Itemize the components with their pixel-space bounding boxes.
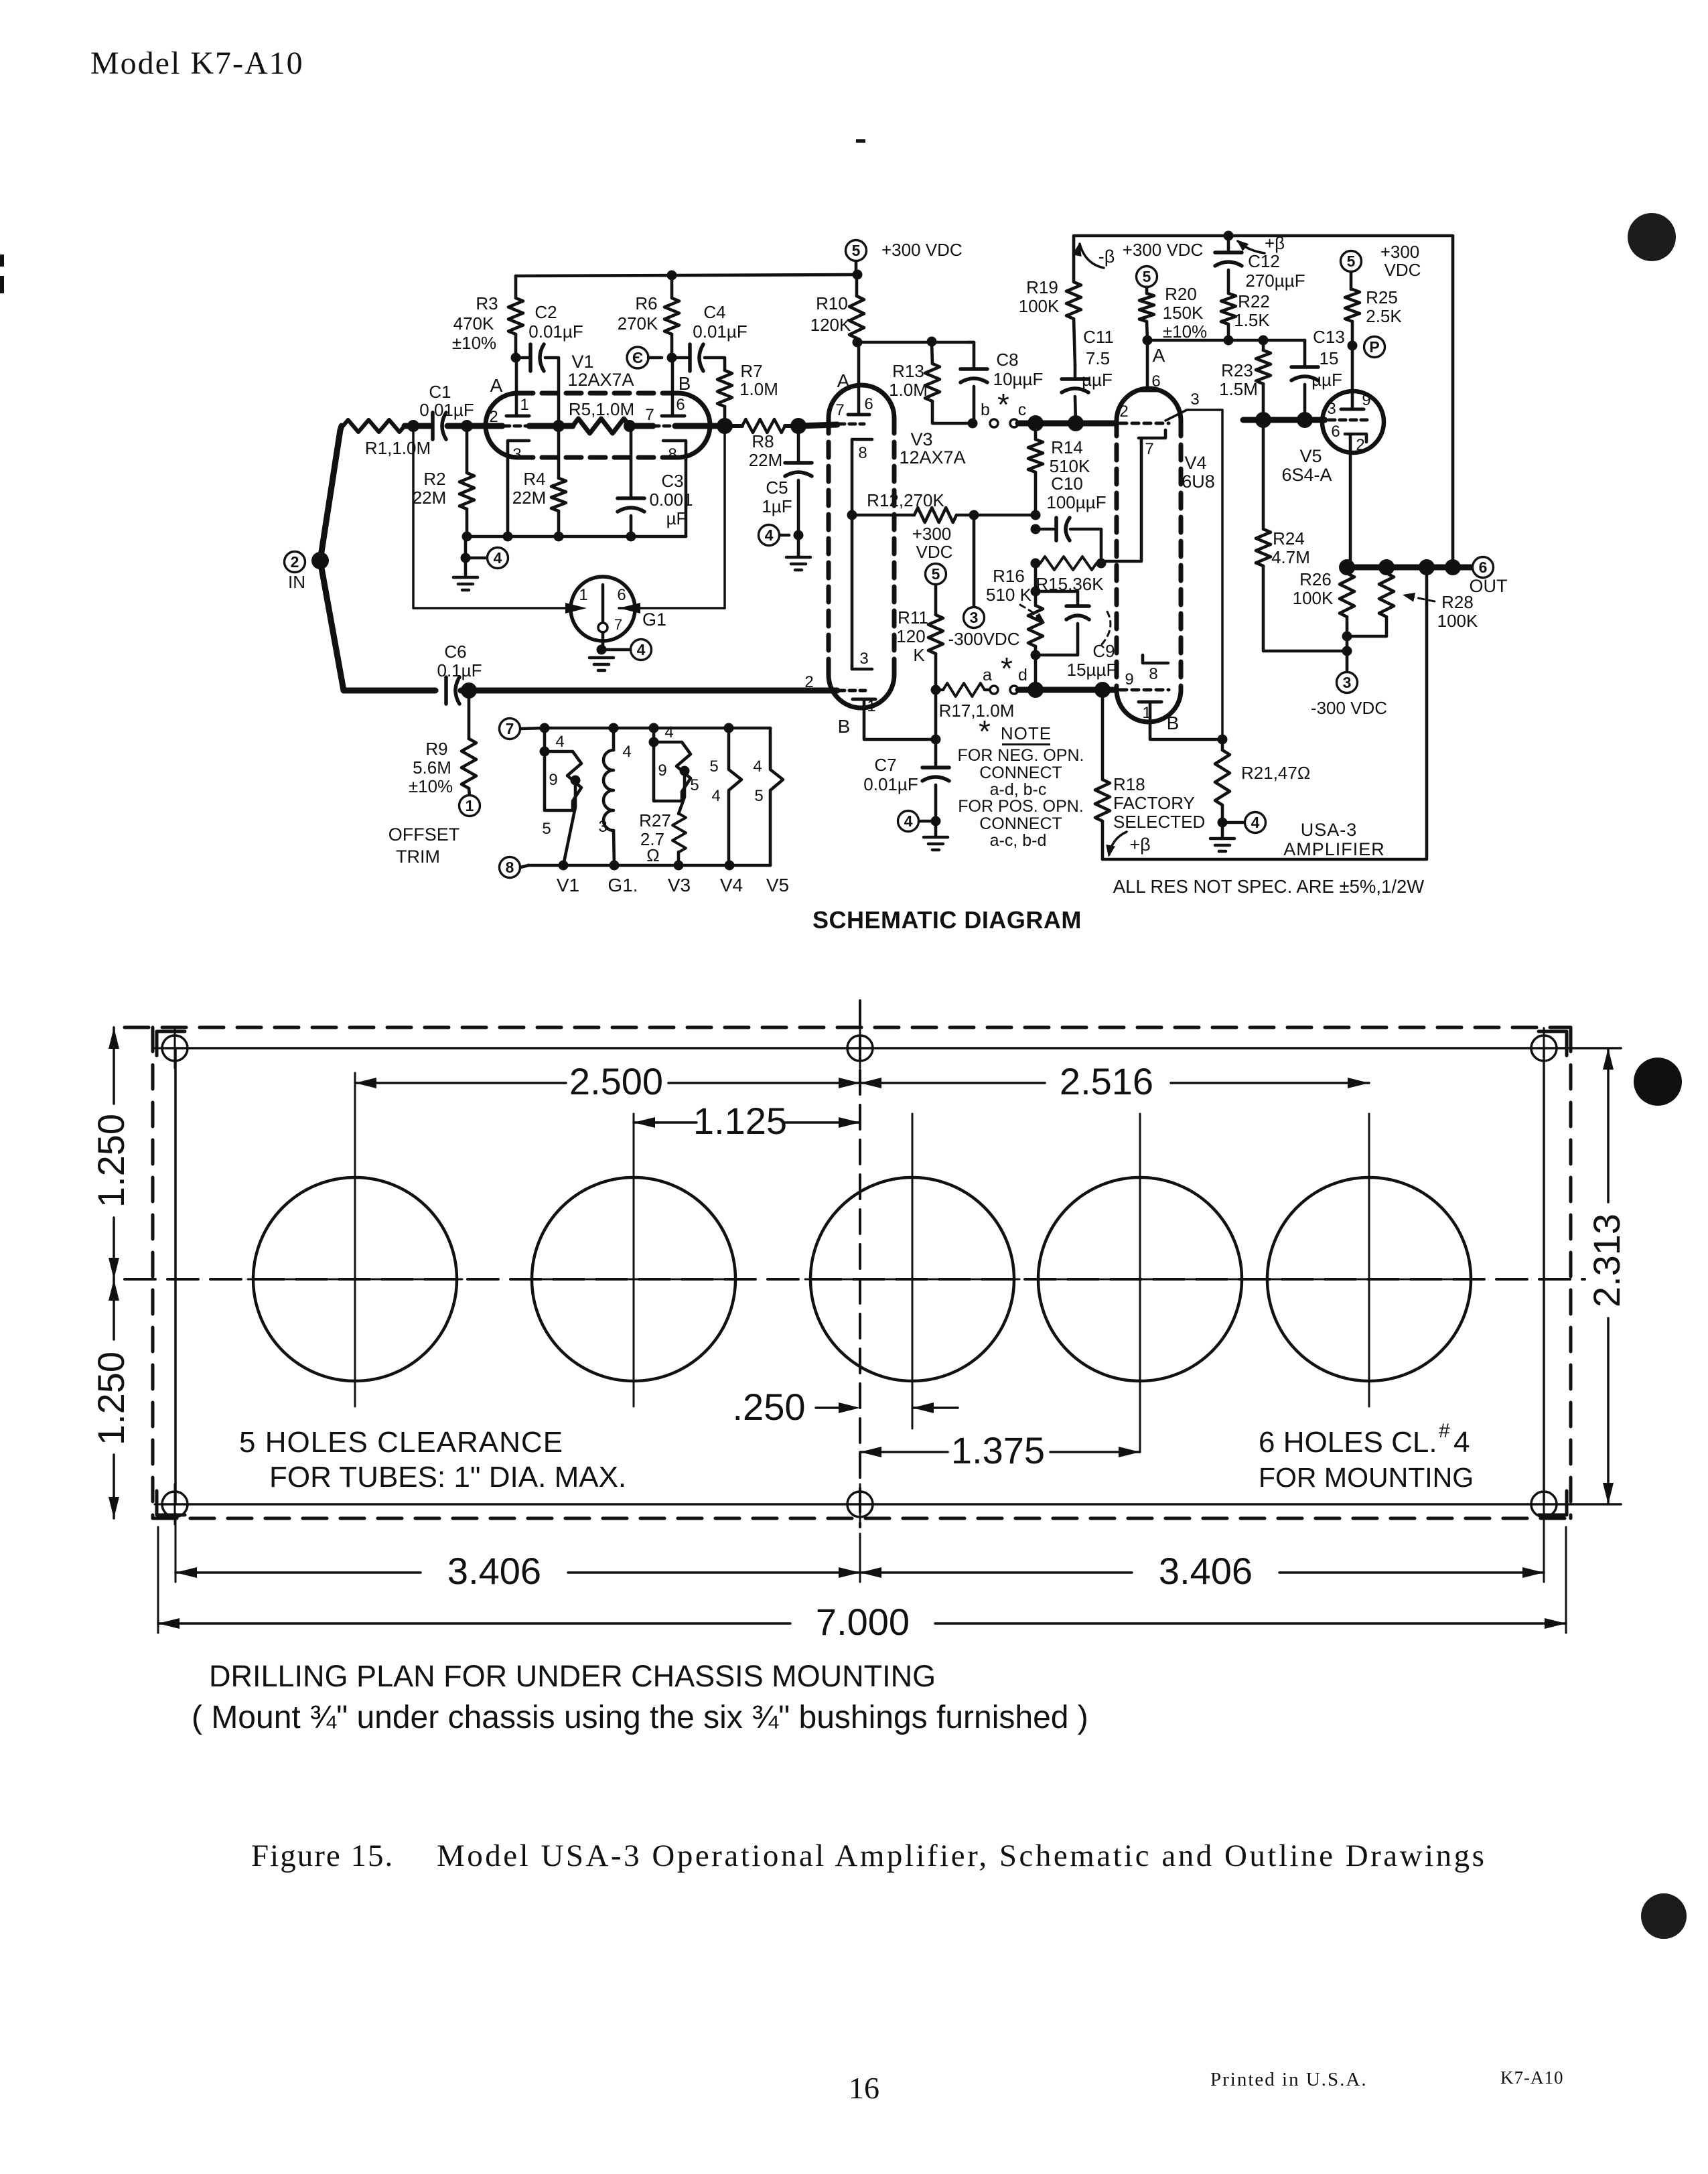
note text block <box>958 714 1084 850</box>
svg-text:AMPLIFIER: AMPLIFIER <box>1283 839 1385 859</box>
V4 heater <box>709 728 741 865</box>
switch contact b <box>981 401 998 427</box>
svg-text:9: 9 <box>1125 670 1133 689</box>
R16 pointer dashed arrow <box>1020 605 1045 623</box>
svg-text:R11: R11 <box>898 607 928 628</box>
tube V4 6U8 envelope <box>1117 345 1215 733</box>
wire G1 pin6 to R7/R8 node <box>619 429 725 613</box>
V1 heater <box>540 728 582 865</box>
wire V1B grid to R8 (thick) <box>675 423 725 429</box>
switch contact d <box>1010 666 1027 694</box>
svg-text:OFFSET: OFFSET <box>388 824 460 845</box>
svg-text:9: 9 <box>658 762 666 780</box>
svg-text:R22: R22 <box>1238 291 1270 311</box>
svg-text:R19: R19 <box>1026 277 1058 297</box>
wire R1 to C1 (thick) <box>405 420 430 432</box>
node 7 heater supply <box>500 719 545 739</box>
V3 pin 2 grid dashes <box>804 673 865 691</box>
V5 pin 6 label <box>1331 423 1340 441</box>
node 4 ground at C7 <box>898 811 948 851</box>
registration dot middle right <box>1634 1058 1682 1106</box>
svg-text:NOTE: NOTE <box>1001 723 1052 743</box>
svg-text:270µµF: 270µµF <box>1245 271 1305 291</box>
svg-text:R6: R6 <box>635 293 657 313</box>
resistor R25 <box>1345 272 1402 346</box>
svg-text:5.6M: 5.6M <box>413 757 451 778</box>
svg-text:K: K <box>913 645 925 665</box>
svg-text:7: 7 <box>1145 440 1153 458</box>
svg-text:R2: R2 <box>423 469 445 489</box>
svg-text:5 HOLES CLEARANCE: 5 HOLES CLEARANCE <box>239 1426 563 1459</box>
svg-text:4: 4 <box>1453 1426 1470 1459</box>
capacitor C10 <box>1031 474 1107 561</box>
V4 pin 1 plate <box>1139 702 1222 739</box>
svg-text:C5: C5 <box>766 478 788 498</box>
svg-text:8: 8 <box>1149 665 1157 683</box>
svg-text:Figure 15.: Figure 15. <box>251 1838 394 1873</box>
wire junction to G1 lamp <box>413 431 587 613</box>
svg-text:R9: R9 <box>425 739 447 759</box>
V4 pin 9 grid dashes <box>1120 670 1169 690</box>
drill plan dashed chassis outline <box>125 1027 1571 1518</box>
mounting hole at 2305,1565 <box>1524 1028 1564 1068</box>
registration dot bottom right <box>1641 1893 1687 1939</box>
svg-text:12AX7A: 12AX7A <box>899 447 965 467</box>
svg-text:R3: R3 <box>476 293 498 313</box>
svg-text:±10%: ±10% <box>409 776 453 796</box>
svg-text:R5,1.0M: R5,1.0M <box>569 399 634 419</box>
svg-text:V4: V4 <box>720 875 743 895</box>
scan edge marks left margin <box>0 255 4 293</box>
note asterisk at b-c <box>997 387 1009 422</box>
V1 pin 3 cathode <box>508 441 529 536</box>
svg-text:5: 5 <box>690 776 699 794</box>
svg-text:R28: R28 <box>1441 592 1474 612</box>
svg-text:SELECTED: SELECTED <box>1113 812 1205 832</box>
svg-text:+300: +300 <box>912 524 952 544</box>
V1 pin 6 plate <box>662 358 685 416</box>
resistor R28 <box>1347 567 1478 636</box>
svg-text:4.7M: 4.7M <box>1271 547 1310 567</box>
V5 heater <box>753 728 783 865</box>
svg-text:a-c, b-d: a-c, b-d <box>990 831 1047 850</box>
resistor R6 <box>618 271 679 363</box>
wire feedback bottom return <box>1102 567 1427 859</box>
svg-text:8: 8 <box>858 444 867 462</box>
svg-text:TRIM: TRIM <box>396 847 440 867</box>
svg-text:120K: 120K <box>810 315 851 335</box>
svg-text:CONNECT: CONNECT <box>979 814 1062 833</box>
capacitor C11 <box>1062 327 1114 423</box>
svg-text:1: 1 <box>579 586 587 604</box>
capacitor C2 <box>516 302 583 371</box>
dimension 1.250 upper <box>90 1027 132 1279</box>
svg-text:7: 7 <box>614 616 622 633</box>
wire R10 node to R13/C8 <box>857 337 974 347</box>
capacitor C3 <box>618 426 693 536</box>
V3 pin 7 grid dashes <box>835 401 864 424</box>
resistor R17 <box>931 683 1015 721</box>
dimension 1.250 lower <box>90 1279 132 1518</box>
node 5 +300VDC at R25 <box>1341 242 1421 280</box>
svg-text:7: 7 <box>506 720 514 737</box>
svg-text:c: c <box>1018 401 1027 419</box>
svg-text:100K: 100K <box>1293 588 1334 608</box>
svg-text:R10: R10 <box>816 293 848 313</box>
svg-text:3: 3 <box>970 609 979 626</box>
resistor R18 <box>1095 690 1205 859</box>
svg-text:12AX7A: 12AX7A <box>567 370 634 390</box>
node 5 +300VDC at R20 <box>1123 240 1204 287</box>
node 4 ground at V1 <box>461 536 508 569</box>
svg-text:0.1µF: 0.1µF <box>437 660 482 680</box>
svg-text:C4: C4 <box>703 302 725 322</box>
wire top +300 rail left <box>516 275 857 276</box>
svg-text:1.250: 1.250 <box>90 1352 132 1445</box>
resistor R11 <box>896 585 943 690</box>
wire IN to R1 (thick diagonal up) <box>320 426 342 561</box>
svg-text:+300: +300 <box>1380 242 1420 262</box>
svg-text:R14: R14 <box>1051 437 1083 457</box>
svg-text:FOR POS. OPN.: FOR POS. OPN. <box>958 797 1084 816</box>
svg-text:Model K7-A10: Model K7-A10 <box>90 46 304 81</box>
node P terminal <box>1348 337 1385 358</box>
node 3 -300VDC right <box>1311 632 1387 719</box>
svg-text:470K: 470K <box>453 313 494 334</box>
svg-text:6: 6 <box>864 395 873 413</box>
V5 pin 3 grid dashes <box>1327 400 1368 420</box>
V3 pin 6 plate riser <box>857 342 861 415</box>
capacitor C8 <box>960 342 1043 429</box>
svg-text:SCHEMATIC DIAGRAM: SCHEMATIC DIAGRAM <box>812 906 1082 934</box>
svg-text:R7: R7 <box>740 361 762 381</box>
tube V1 12AX7A envelope <box>486 352 710 457</box>
figure caption <box>251 1838 1486 1873</box>
svg-text:R17,1.0M: R17,1.0M <box>939 701 1015 721</box>
dimension 7.000 <box>158 1527 1566 1643</box>
wire d to V4 pin9 grid (thick) <box>1018 682 1117 698</box>
svg-text:#: # <box>1439 1420 1450 1442</box>
capacitor C12 <box>1215 236 1305 293</box>
svg-text:Printed in U.S.A.: Printed in U.S.A. <box>1210 2069 1368 2090</box>
svg-text:R23: R23 <box>1221 360 1253 380</box>
capacitor C5 <box>762 432 812 534</box>
svg-text:-β: -β <box>1098 246 1115 267</box>
svg-text:A: A <box>837 370 850 391</box>
svg-text:0.01µF: 0.01µF <box>863 774 918 794</box>
svg-text:3.406: 3.406 <box>1159 1550 1253 1592</box>
svg-text:100µµF: 100µµF <box>1046 492 1106 512</box>
V1 pin 8 cathode <box>663 441 686 536</box>
svg-text:4: 4 <box>765 526 774 544</box>
node 5 +300VDC mid <box>912 524 953 585</box>
G1 heater coil <box>598 728 631 865</box>
svg-text:22M: 22M <box>512 488 547 508</box>
svg-text:.250: .250 <box>733 1386 806 1428</box>
svg-text:2: 2 <box>1356 436 1364 454</box>
wire R16/C9 to V4 grid line <box>1034 655 1038 690</box>
dimension 3.406 left <box>175 1514 860 1592</box>
svg-text:( Mount ¾" under chassis using: ( Mount ¾" under chassis using the six ¾… <box>192 1700 1088 1735</box>
svg-text:OUT: OUT <box>1470 576 1508 596</box>
dimension 2.516 <box>860 1060 1369 1102</box>
resistor R20 <box>1139 284 1207 342</box>
svg-text:3: 3 <box>598 818 607 836</box>
svg-text:2.500: 2.500 <box>569 1060 663 1102</box>
document header text: Model K7-A10 <box>90 46 304 81</box>
V3 pin 1 plate <box>853 697 931 739</box>
svg-text:6: 6 <box>617 586 626 604</box>
svg-text:5: 5 <box>932 565 940 583</box>
svg-text:IN: IN <box>288 572 305 592</box>
R28 pointer dashed arrow <box>1403 593 1435 602</box>
svg-text:22M: 22M <box>749 450 783 470</box>
svg-text:1: 1 <box>466 797 474 814</box>
G1 cathode ground <box>589 632 652 670</box>
V4 pin 8 bracket <box>1143 655 1168 683</box>
dimension 1.375 <box>860 1429 1140 1471</box>
svg-text:1: 1 <box>1142 704 1151 722</box>
svg-text:7.5: 7.5 <box>1086 348 1110 368</box>
svg-text:100K: 100K <box>1019 296 1060 316</box>
svg-text:3: 3 <box>1327 400 1336 418</box>
capacitor C4 <box>672 302 748 371</box>
resistor R13 <box>889 342 967 423</box>
V3 pin 3 cathode bar <box>852 650 872 669</box>
svg-text:0.01µF: 0.01µF <box>528 321 583 342</box>
svg-text:6S4-A: 6S4-A <box>1281 465 1332 485</box>
drill plan horizontal dashed centerline <box>125 1278 1585 1281</box>
svg-text:-300VDC: -300VDC <box>948 629 1020 649</box>
svg-text:R16: R16 <box>993 566 1025 586</box>
svg-text:4: 4 <box>753 757 762 776</box>
svg-text:+β: +β <box>1129 835 1150 855</box>
svg-text:1.5M: 1.5M <box>1219 379 1258 399</box>
resistor R8 (thick junctions) <box>717 418 806 470</box>
svg-text:6: 6 <box>676 396 685 414</box>
resistor R21 <box>1215 735 1310 823</box>
svg-text:6: 6 <box>1331 423 1340 441</box>
svg-text:1: 1 <box>867 697 875 715</box>
svg-text:4: 4 <box>555 733 564 751</box>
resistor R12 <box>847 490 1036 522</box>
svg-text:4: 4 <box>622 743 631 761</box>
svg-text:B: B <box>838 716 851 737</box>
svg-text:VDC: VDC <box>916 542 953 562</box>
tube clearance circle hole V3 <box>805 1114 1019 1429</box>
svg-text:FOR MOUNTING: FOR MOUNTING <box>1259 1462 1474 1493</box>
svg-text:R12,270K: R12,270K <box>867 490 944 510</box>
svg-text:5: 5 <box>1143 268 1151 285</box>
svg-text:V5: V5 <box>1299 446 1322 466</box>
tube V5 6S4-A envelope <box>1281 391 1384 485</box>
wire C2 to R4 node <box>545 358 559 426</box>
label 6 holes mounting <box>1259 1420 1474 1493</box>
svg-text:R26: R26 <box>1299 569 1332 589</box>
label USA-3 AMPLIFIER <box>1283 820 1385 859</box>
svg-text:FOR NEG. OPN.: FOR NEG. OPN. <box>958 746 1084 765</box>
svg-text:ALL RES NOT SPEC. ARE ±5%,1/2W: ALL RES NOT SPEC. ARE ±5%,1/2W <box>1113 876 1424 897</box>
svg-text:8: 8 <box>506 859 514 876</box>
node 8 heater return <box>500 857 529 878</box>
heater labels <box>557 875 789 895</box>
resistor R16 <box>986 563 1043 655</box>
resistor R22 <box>1221 291 1270 340</box>
svg-text:1: 1 <box>520 396 528 414</box>
svg-text:G1: G1 <box>642 609 666 630</box>
svg-text:+300 VDC: +300 VDC <box>881 240 963 260</box>
svg-text:4: 4 <box>637 641 646 658</box>
printed in usa <box>1210 2069 1368 2090</box>
svg-text:P: P <box>1369 338 1379 356</box>
svg-text:V5: V5 <box>766 875 789 895</box>
svg-text:6 HOLES CL.: 6 HOLES CL. <box>1259 1426 1437 1459</box>
svg-text:4: 4 <box>711 787 720 805</box>
svg-text:VDC: VDC <box>1384 260 1421 280</box>
svg-text:R18: R18 <box>1113 774 1145 794</box>
svg-text:7: 7 <box>645 406 654 424</box>
svg-text:R25: R25 <box>1366 287 1398 307</box>
svg-text:*: * <box>979 714 991 749</box>
switch contact a <box>983 666 998 694</box>
caption drilling plan <box>209 1659 936 1693</box>
svg-text:3: 3 <box>1343 674 1352 691</box>
C9 pointer dashed arc <box>1102 608 1111 644</box>
svg-text:b: b <box>981 401 990 419</box>
node 3 -300VDC mid <box>948 515 1020 649</box>
svg-text:R27: R27 <box>639 810 671 830</box>
dimension .250 <box>733 1386 958 1428</box>
tube clearance circle hole G1 <box>526 1114 741 1406</box>
wire C6 to V3 pin2 grid (thick) <box>461 682 837 699</box>
switch contact c <box>1010 401 1026 427</box>
svg-text:R21,47Ω: R21,47Ω <box>1241 763 1310 783</box>
svg-text:*: * <box>997 387 1009 422</box>
svg-text:2: 2 <box>291 553 299 571</box>
svg-text:R4: R4 <box>523 469 545 489</box>
svg-text:6: 6 <box>1151 372 1160 390</box>
svg-text:1.125: 1.125 <box>693 1100 787 1142</box>
svg-text:Model USA-3 Operational Amplif: Model USA-3 Operational Amplifier, Schem… <box>437 1838 1486 1873</box>
stray ink speck top center <box>856 139 865 143</box>
svg-text:R24: R24 <box>1273 528 1305 549</box>
svg-text:9: 9 <box>1362 391 1370 409</box>
svg-text:±10%: ±10% <box>452 333 496 353</box>
svg-text:3: 3 <box>512 445 521 463</box>
V4 pin 2 grid dashes <box>1119 403 1169 423</box>
dimension 2.313 <box>1585 1048 1628 1504</box>
svg-text:C9: C9 <box>1092 641 1115 661</box>
svg-text:8: 8 <box>668 445 677 463</box>
resistor R4 <box>512 426 566 536</box>
svg-text:C1: C1 <box>429 382 451 402</box>
svg-text:2: 2 <box>489 408 498 426</box>
svg-text:FACTORY: FACTORY <box>1113 793 1195 813</box>
caption SCHEMATIC DIAGRAM <box>812 906 1082 934</box>
capacitor C9 <box>1031 591 1117 680</box>
V5 pin 9 plate <box>1341 391 1371 409</box>
svg-text:B: B <box>679 373 691 394</box>
svg-text:1.5K: 1.5K <box>1234 310 1270 330</box>
note all res <box>1113 876 1424 897</box>
svg-text:4: 4 <box>1251 814 1260 831</box>
resistor R7 <box>717 361 778 426</box>
doc number <box>1500 2068 1564 2088</box>
svg-text:120: 120 <box>896 626 925 646</box>
mounting hole at 1284,2246 <box>840 1484 880 1524</box>
svg-text:7: 7 <box>835 401 844 419</box>
page number <box>849 2071 879 2105</box>
neon lamp G1 <box>571 577 666 641</box>
svg-text:µµF: µµF <box>1311 370 1342 390</box>
dimension 1.125 <box>634 1100 860 1142</box>
svg-text:+β: +β <box>1265 233 1285 253</box>
svg-text:µF: µF <box>666 508 687 528</box>
svg-text:6: 6 <box>1479 559 1488 576</box>
svg-text:C2: C2 <box>535 302 557 322</box>
svg-text:Ω: Ω <box>646 845 659 865</box>
svg-text:Є: Є <box>632 349 643 366</box>
svg-text:A: A <box>490 375 503 396</box>
svg-text:10µµF: 10µµF <box>993 369 1044 389</box>
svg-text:2: 2 <box>1119 403 1128 421</box>
svg-text:K7-A10: K7-A10 <box>1500 2068 1564 2088</box>
svg-text:4: 4 <box>904 812 913 830</box>
svg-text:2.5K: 2.5K <box>1366 306 1402 326</box>
resistor R19 <box>1019 277 1081 365</box>
svg-text:-300 VDC: -300 VDC <box>1311 698 1387 718</box>
svg-text:±10%: ±10% <box>1163 321 1207 342</box>
svg-text:4: 4 <box>494 549 502 567</box>
svg-text:3: 3 <box>859 650 868 668</box>
svg-text:16: 16 <box>849 2071 879 2105</box>
node 4 ground at R21 <box>1210 812 1266 852</box>
capacitor C6 <box>437 642 482 704</box>
beta plus arrow at C12 <box>1236 233 1285 253</box>
svg-text:C8: C8 <box>996 350 1018 370</box>
node 5 +300VDC above R10 <box>846 240 963 280</box>
V3 heater <box>649 723 699 814</box>
svg-text:C10: C10 <box>1051 474 1083 494</box>
tube clearance circle hole V1 <box>248 1073 462 1406</box>
capacitor C1 <box>419 382 474 439</box>
svg-text:2.516: 2.516 <box>1060 1060 1153 1102</box>
V4 pin 3 screen wire <box>1165 390 1222 739</box>
V3 pin 8 cathode <box>852 439 872 669</box>
svg-text:C6: C6 <box>444 642 466 662</box>
svg-text:V1: V1 <box>557 875 579 895</box>
node 1 offset trim terminal <box>388 796 480 867</box>
capacitor C7 <box>863 739 949 821</box>
svg-text:3: 3 <box>1190 390 1199 409</box>
wire V1 cathode ground rail <box>462 532 687 542</box>
resistor R27 <box>639 810 686 865</box>
svg-text:510 K: 510 K <box>986 585 1032 605</box>
wire IN to C6 (thick diagonal down) <box>320 561 348 691</box>
svg-text:3.406: 3.406 <box>447 1550 541 1592</box>
wire C6 line left (thick) <box>346 688 435 694</box>
tube clearance circle hole V4 <box>1033 1114 1247 1452</box>
dimension 3.406 right <box>860 1514 1544 1592</box>
wire R8 to V3 pin7 grid (thick) <box>798 425 837 426</box>
svg-text:2.313: 2.313 <box>1585 1214 1628 1307</box>
svg-text:0.01µF: 0.01µF <box>419 400 474 420</box>
V5 pin 2 cathode <box>1345 434 1366 567</box>
G1 pin7 contact <box>598 623 608 632</box>
svg-text:d: d <box>1018 666 1027 684</box>
beta minus arrow <box>1072 242 1115 268</box>
svg-text:C3: C3 <box>661 471 683 491</box>
